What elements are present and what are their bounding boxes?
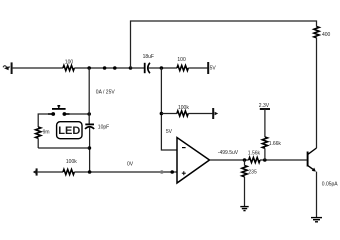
node junction loop top-right (87, 112, 91, 116)
svg-text:2.3V: 2.3V (259, 103, 270, 109)
node junction loop bottom-right (88, 146, 92, 150)
resistor R 100 top-right (177, 65, 188, 70)
svg-text:18uF: 18uF (143, 54, 154, 60)
resistor R 235 (242, 166, 247, 177)
resistor R 100 top-left (63, 65, 74, 70)
terminal bar 5V (207, 62, 209, 74)
terminal bar 2.3V (260, 108, 270, 110)
resistor R 100k bottom (63, 169, 74, 174)
wire 1.66k to node (264, 148, 266, 160)
svg-text:100: 100 (65, 60, 74, 66)
wire 1.56k to node (260, 159, 307, 161)
input port bar (11, 62, 13, 74)
svg-text:100: 100 (177, 57, 186, 63)
bottom input port arrow (33, 170, 36, 173)
capacitor C2 10pF (85, 124, 94, 128)
svg-text:-499.5uV: -499.5uV (218, 150, 239, 156)
svg-text:235: 235 (248, 169, 257, 175)
svg-text:100k: 100k (178, 105, 189, 111)
svg-text:1.66k: 1.66k (269, 141, 282, 147)
port arrow right (215, 112, 219, 116)
resistor R 1.66k (262, 137, 267, 148)
svg-text:400: 400 (322, 32, 331, 38)
svg-text:9m: 9m (43, 130, 50, 136)
svg-text:100k: 100k (66, 159, 77, 165)
wire cap branch upper (88, 68, 90, 124)
wire switch to loop corner (70, 113, 90, 115)
resistor R 400 (314, 27, 319, 38)
node dot plus input (170, 170, 174, 174)
ground G2 (311, 218, 322, 222)
input source squiggle (3, 66, 10, 68)
svg-text:LED: LED (58, 125, 80, 137)
wire LED loop bottom (38, 147, 89, 149)
resistor R 1.56k (249, 157, 260, 162)
wire emitter down (316, 172, 318, 218)
wire 2.3V down (264, 109, 266, 137)
wire top rail up (131, 21, 317, 68)
capacitor C1 18uF (145, 63, 150, 73)
node junction inv branch (160, 112, 164, 116)
wire cap branch lower (89, 127, 91, 172)
svg-text:5V: 5V (210, 66, 217, 72)
node ammeter dot A (103, 66, 107, 70)
svg-text:0A / 25V: 0A / 25V (96, 89, 116, 95)
node junction at x=89 top (87, 66, 91, 70)
input port arrow (4, 66, 9, 70)
transistor Q1 (308, 148, 317, 172)
node junction at x=161.4 top (160, 66, 164, 70)
wire 235 top stub (244, 160, 246, 166)
svg-text:1.56k: 1.56k (248, 151, 261, 157)
ground G1 (240, 207, 248, 211)
node junction output x=244.5 (243, 158, 247, 162)
resistor R 100k mid (177, 111, 188, 116)
op-amp U1 (177, 138, 210, 184)
svg-text:5V: 5V (166, 129, 173, 135)
svg-text:0V: 0V (127, 161, 134, 167)
wire below 9m (37, 138, 39, 148)
wire LED loop top-left (38, 114, 48, 127)
wire right rail down to collector (316, 38, 318, 148)
resistor R 9m left branch (36, 127, 41, 138)
wire to C1 (131, 67, 145, 69)
wire to op-amp plus (74, 171, 177, 173)
svg-text:0.05pA: 0.05pA (322, 181, 339, 187)
probe dot gray (160, 170, 164, 174)
node junction x=264.8 (263, 158, 267, 162)
svg-text:10pF: 10pF (98, 125, 109, 131)
wire to R 100k mid (161, 113, 177, 115)
pushbutton S1 (48, 106, 70, 116)
wire middle vertical (161, 68, 177, 150)
node junction at x=130 top (129, 66, 133, 70)
wire to 5V terminal (188, 67, 208, 69)
wire op-amp output (210, 159, 249, 161)
wire top-left (13, 67, 63, 69)
node junction bottom x=89 (88, 170, 92, 174)
wire after C1 (148, 67, 177, 69)
node ammeter dot B (113, 66, 117, 70)
wire bottom-left (38, 171, 63, 173)
bottom input port bar (36, 168, 38, 175)
wire 235 to ground (244, 177, 246, 207)
port bar right (212, 108, 214, 119)
LED box D1 (57, 122, 82, 139)
wire to port (188, 113, 213, 115)
wire after R1 (74, 67, 130, 69)
